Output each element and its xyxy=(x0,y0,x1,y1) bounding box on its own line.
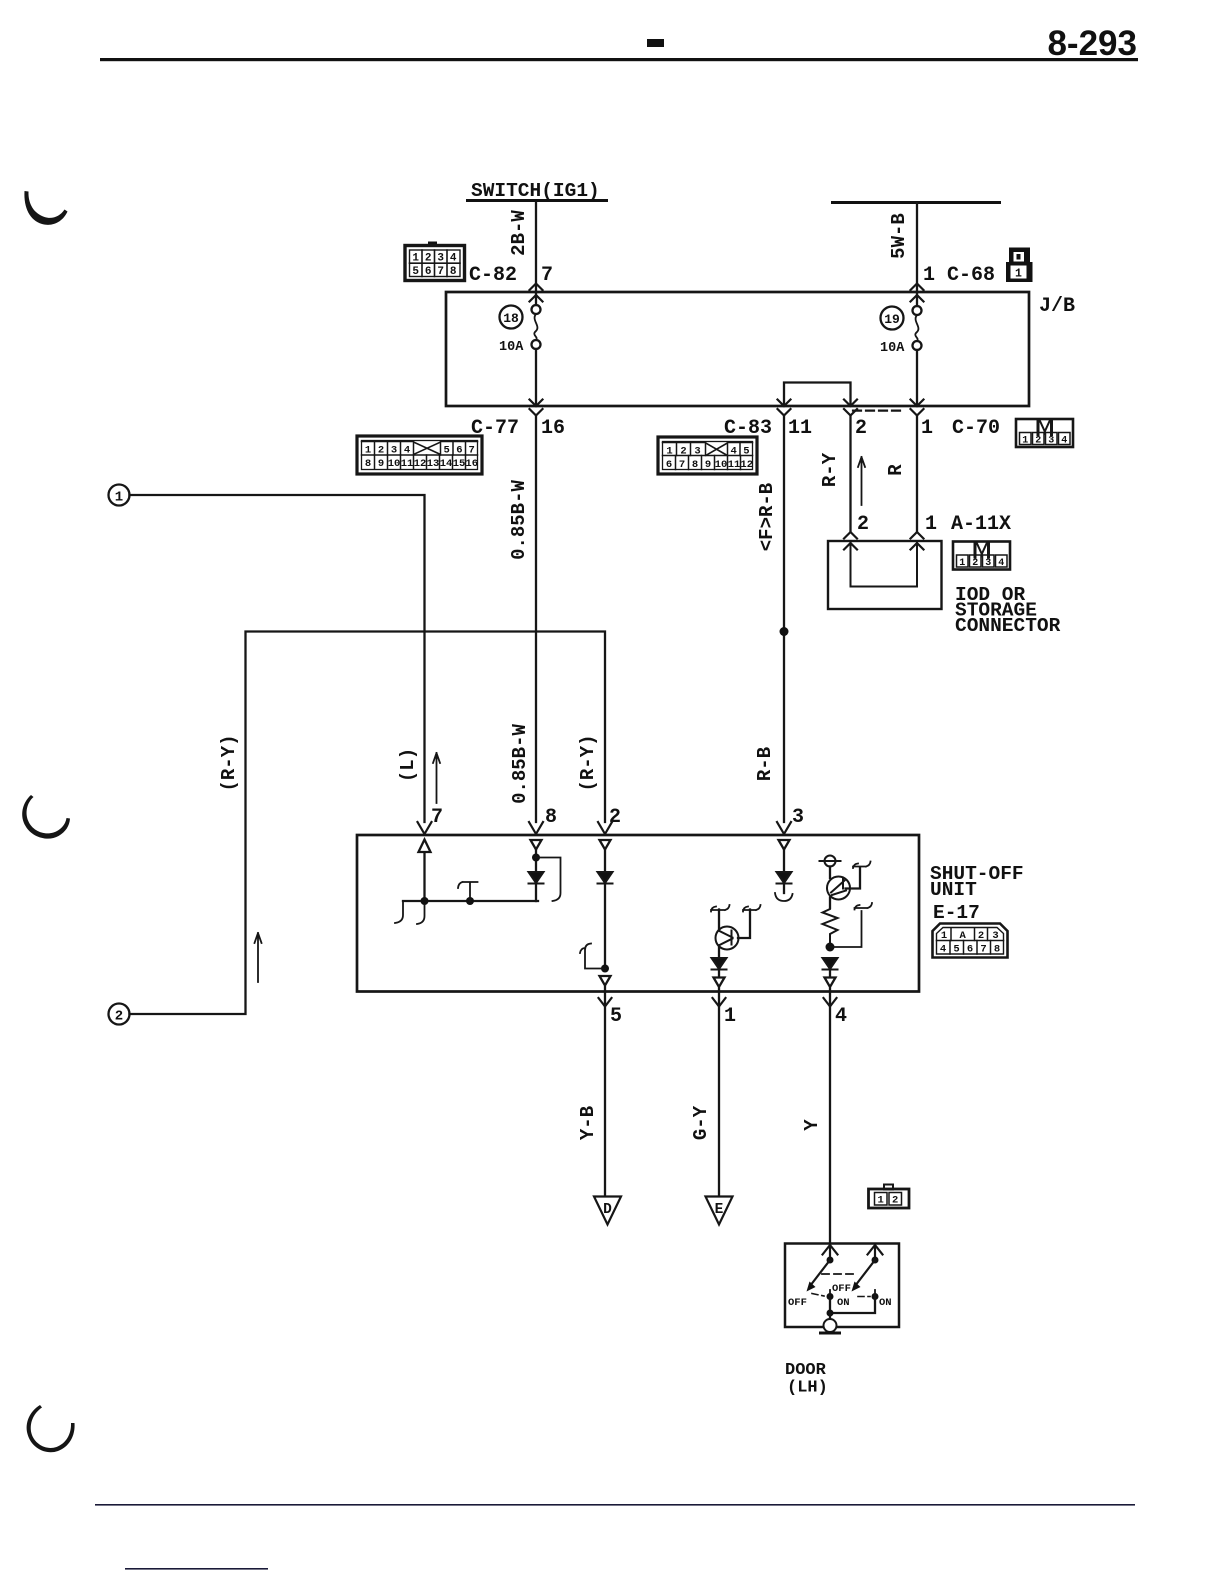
exit chevron pin5 xyxy=(599,998,612,1007)
transistor Q2 xyxy=(827,867,860,909)
wire 5W-B xyxy=(888,203,935,291)
dashed link C-70 xyxy=(853,410,904,412)
svg-text:6: 6 xyxy=(425,266,432,278)
exit chevron pin16 xyxy=(530,400,543,416)
svg-text:C-82: C-82 xyxy=(469,264,517,287)
wire from node 1 xyxy=(130,495,425,822)
svg-text:6: 6 xyxy=(456,444,462,456)
junction pin7 bus xyxy=(421,897,429,905)
svg-text:16: 16 xyxy=(541,417,565,440)
svg-text:2: 2 xyxy=(855,417,867,440)
svg-text:13: 13 xyxy=(427,458,440,470)
svg-text:5W-B: 5W-B xyxy=(888,213,910,259)
svg-text:4: 4 xyxy=(835,1005,847,1028)
svg-text:4: 4 xyxy=(731,445,737,457)
svg-text:(R-Y): (R-Y) xyxy=(577,734,599,791)
svg-text:(R-Y): (R-Y) xyxy=(218,734,240,791)
svg-text:7: 7 xyxy=(437,266,444,278)
current arrow (L) xyxy=(433,753,440,803)
connector C-70 icon xyxy=(1016,419,1073,447)
svg-text:14: 14 xyxy=(440,458,453,470)
svg-text:7: 7 xyxy=(541,264,553,287)
wire R-B xyxy=(754,415,804,829)
dashed OFF-ON right xyxy=(858,1296,870,1298)
svg-text:4: 4 xyxy=(998,558,1004,569)
svg-text:R-Y: R-Y xyxy=(819,452,841,487)
svg-text:C-68: C-68 xyxy=(947,264,995,287)
pin 1 exit triangle xyxy=(714,978,725,992)
svg-text:R: R xyxy=(885,464,907,476)
svg-text:5: 5 xyxy=(743,445,749,457)
svg-text:7: 7 xyxy=(469,444,475,456)
door arrow 2 stub xyxy=(868,1245,883,1261)
Q1 emitter wire xyxy=(718,946,720,958)
entry chevrons A-11X pin1 xyxy=(911,532,924,550)
svg-text:2: 2 xyxy=(972,558,978,569)
pin 8 entry triangle xyxy=(531,840,542,850)
stub hook below pin7 xyxy=(417,905,425,924)
junction door xyxy=(827,1310,834,1317)
battery node symbol xyxy=(820,856,841,867)
exit chevron pin4 xyxy=(824,998,837,1007)
svg-text:1: 1 xyxy=(115,490,123,506)
ON contact mid xyxy=(827,1290,850,1309)
power rail (right bus) xyxy=(831,201,1001,204)
power rail SWITCH(IG1) xyxy=(466,180,608,202)
svg-text:2: 2 xyxy=(680,445,686,457)
svg-text:8: 8 xyxy=(545,806,557,829)
wire Y-B xyxy=(577,992,605,1196)
svg-text:15: 15 xyxy=(453,458,466,470)
resistor R1 xyxy=(823,906,838,943)
door connector icon xyxy=(869,1185,910,1209)
fuse 18 xyxy=(499,292,541,406)
ground triangle E xyxy=(706,1197,733,1225)
junction on R-B wire xyxy=(780,627,789,636)
svg-text:3: 3 xyxy=(694,445,700,457)
wire Y xyxy=(801,992,830,1244)
svg-text:8: 8 xyxy=(692,459,698,471)
Q2 collector hook xyxy=(853,862,871,869)
junction block J/B xyxy=(446,292,1029,406)
svg-text:5: 5 xyxy=(953,944,959,956)
svg-text:A-11X: A-11X xyxy=(951,513,1011,536)
connector C-77 icon xyxy=(357,436,482,474)
connector C-68 xyxy=(1006,248,1033,283)
svg-text:7: 7 xyxy=(679,459,685,471)
svg-text:DOOR: DOOR xyxy=(785,1361,827,1380)
svg-text:4: 4 xyxy=(404,444,410,456)
wire 2B-W xyxy=(508,202,553,291)
svg-text:1: 1 xyxy=(923,264,935,287)
svg-text:7: 7 xyxy=(431,806,443,829)
svg-text:3: 3 xyxy=(437,253,444,265)
dashed OFF-ON left xyxy=(812,1294,824,1297)
wire R-Y to A-11X xyxy=(819,415,851,531)
switch lever 1 xyxy=(807,1257,834,1292)
entry chevron pin3 shut-off xyxy=(777,822,791,834)
entry chevron pin1 J/B xyxy=(911,284,924,302)
entry chevrons A-11X pin2 xyxy=(844,532,857,550)
internal bus wire xyxy=(403,900,538,902)
svg-text:3: 3 xyxy=(985,558,991,569)
svg-text:J/B: J/B xyxy=(1039,295,1075,318)
stub hook left xyxy=(395,901,403,923)
wire from node 2 xyxy=(130,632,606,1015)
svg-text:8: 8 xyxy=(450,266,457,278)
branch hook pin8 xyxy=(536,858,561,902)
svg-text:2: 2 xyxy=(425,253,432,265)
svg-text:5: 5 xyxy=(412,266,419,278)
svg-text:0.85B-W: 0.85B-W xyxy=(508,480,530,560)
ground bar xyxy=(819,1332,841,1335)
svg-text:1: 1 xyxy=(941,930,947,942)
svg-text:SWITCH(IG1): SWITCH(IG1) xyxy=(471,180,600,202)
diode D1 xyxy=(529,872,544,884)
current arrow (R-Y) xyxy=(255,933,262,982)
branch hook R1 xyxy=(830,903,872,947)
svg-text:(L): (L) xyxy=(397,748,419,782)
svg-text:1: 1 xyxy=(959,558,965,569)
svg-text:OFF: OFF xyxy=(788,1297,807,1309)
svg-text:12: 12 xyxy=(740,459,753,471)
exit chevron pin1 xyxy=(713,998,726,1007)
svg-text:Y: Y xyxy=(801,1119,823,1131)
svg-text:12: 12 xyxy=(414,458,427,470)
junction gate node xyxy=(466,897,474,905)
svg-text:1: 1 xyxy=(878,1195,884,1207)
junction Q2-R1 xyxy=(826,943,835,952)
svg-text:1: 1 xyxy=(412,253,419,265)
svg-text:9: 9 xyxy=(705,459,711,471)
svg-text:6: 6 xyxy=(967,944,973,956)
door switch ground terminal xyxy=(824,1313,837,1332)
svg-text:Y-B: Y-B xyxy=(577,1106,599,1140)
svg-text:1: 1 xyxy=(921,417,933,440)
node 2 xyxy=(109,1004,130,1025)
diode D3 xyxy=(777,872,792,884)
svg-text:C-70: C-70 xyxy=(952,417,1000,440)
connector C-82 xyxy=(405,242,465,281)
Q1 base hook xyxy=(711,905,730,912)
svg-text:8: 8 xyxy=(365,458,371,470)
branch gate stub pin5 xyxy=(580,944,605,969)
pin 5 exit triangle xyxy=(600,976,611,991)
svg-text:2B-W: 2B-W xyxy=(508,210,530,256)
svg-text:9: 9 xyxy=(378,458,384,470)
svg-text:8: 8 xyxy=(994,944,1000,956)
svg-text:11: 11 xyxy=(788,417,812,440)
svg-text:2: 2 xyxy=(1035,435,1041,446)
svg-text:11: 11 xyxy=(401,458,414,470)
svg-text:E-17: E-17 xyxy=(933,902,980,924)
svg-text:10A: 10A xyxy=(499,340,524,355)
svg-text:<F>R-B: <F>R-B xyxy=(756,483,778,551)
svg-text:1: 1 xyxy=(1015,268,1022,281)
current arrow R-Y xyxy=(858,457,865,505)
junction pin2-5 xyxy=(601,965,609,973)
shut-off unit box xyxy=(357,835,919,992)
exit chevron pin11 xyxy=(778,400,791,416)
pin 4 exit triangle xyxy=(825,978,836,992)
switch lever 2 xyxy=(852,1257,879,1292)
svg-text:2: 2 xyxy=(892,1195,898,1207)
svg-text:11: 11 xyxy=(728,459,741,471)
wire mid ON to junction xyxy=(829,1297,831,1314)
svg-text:3: 3 xyxy=(992,930,998,942)
svg-text:5: 5 xyxy=(610,1005,622,1028)
svg-text:OFF: OFF xyxy=(832,1283,851,1295)
wire 0.85B-W upper xyxy=(508,415,557,829)
Q1 collector hook xyxy=(743,905,761,912)
wire R to A-11X xyxy=(885,415,917,531)
exit chevron C-70 pin1 xyxy=(911,400,924,416)
svg-text:8-293: 8-293 xyxy=(1047,24,1137,63)
entry chevron pin2 shut-off xyxy=(598,822,612,834)
door arrow 1 xyxy=(823,1244,838,1260)
svg-text:1: 1 xyxy=(925,513,937,536)
svg-text:1: 1 xyxy=(1022,435,1028,446)
connector A-11X icon xyxy=(953,542,1010,570)
svg-text:1: 1 xyxy=(365,444,371,456)
svg-text:10: 10 xyxy=(388,458,401,470)
transistor Q1 xyxy=(716,910,751,950)
wire G-Y xyxy=(690,992,719,1196)
IOD storage connector box xyxy=(828,541,942,609)
svg-text:2: 2 xyxy=(978,930,984,942)
svg-text:A: A xyxy=(960,930,967,942)
pin 2 entry triangle xyxy=(600,840,611,850)
wire right ON to junction xyxy=(830,1297,875,1314)
entry chevron pin8 shut-off xyxy=(529,822,543,834)
svg-text:4: 4 xyxy=(1061,435,1067,446)
junction pin8 xyxy=(532,854,540,862)
svg-text:0.85B-W: 0.85B-W xyxy=(509,724,531,804)
svg-text:5: 5 xyxy=(444,444,450,456)
svg-text:3: 3 xyxy=(391,444,397,456)
svg-text:R-B: R-B xyxy=(754,747,776,781)
footer rule xyxy=(95,1504,1135,1506)
diode D4 xyxy=(712,958,727,970)
entry chevron pin7 shut-off xyxy=(418,822,432,834)
pin 7 internal arrow xyxy=(419,840,431,902)
diode D2 xyxy=(598,872,613,884)
svg-text:16: 16 xyxy=(465,458,478,470)
ground triangle D xyxy=(594,1197,621,1225)
svg-text:2: 2 xyxy=(115,1009,123,1025)
J/B inner tap box xyxy=(784,383,851,407)
pin3 end hook xyxy=(775,893,793,901)
svg-text:1: 1 xyxy=(724,1005,736,1028)
svg-text:7: 7 xyxy=(980,944,986,956)
pin 3 entry triangle xyxy=(779,840,790,850)
svg-text:2: 2 xyxy=(857,513,869,536)
svg-text:19: 19 xyxy=(884,312,900,327)
svg-text:G-Y: G-Y xyxy=(690,1105,712,1140)
door switch box xyxy=(785,1244,899,1328)
svg-text:6: 6 xyxy=(666,459,672,471)
header rule xyxy=(100,58,1138,61)
header dash xyxy=(647,39,664,47)
svg-text:4: 4 xyxy=(450,253,457,265)
svg-text:ON: ON xyxy=(837,1297,850,1309)
svg-text:10A: 10A xyxy=(880,341,905,356)
gate stub xyxy=(458,882,478,901)
fuse 19 xyxy=(880,292,922,406)
svg-text:3: 3 xyxy=(1048,435,1054,446)
svg-text:1: 1 xyxy=(666,445,672,457)
svg-text:3: 3 xyxy=(792,806,804,829)
footer short rule xyxy=(125,1568,268,1570)
node 1 xyxy=(109,485,130,506)
svg-text:(LH): (LH) xyxy=(787,1379,828,1398)
svg-text:10: 10 xyxy=(715,459,728,471)
svg-text:D: D xyxy=(603,1202,612,1218)
entry chevron pin7 J/B xyxy=(530,284,543,302)
ON contact right xyxy=(872,1290,892,1309)
diode D5 xyxy=(823,958,838,970)
svg-text:2: 2 xyxy=(378,444,384,456)
svg-text:ON: ON xyxy=(879,1297,892,1309)
connector E-17 icon xyxy=(933,924,1008,958)
svg-text:18: 18 xyxy=(503,311,519,326)
dashed coupler xyxy=(822,1273,856,1275)
svg-text:E: E xyxy=(715,1202,724,1218)
exit chevron C-70 pin2 xyxy=(844,400,857,416)
connector C-83 icon xyxy=(658,437,757,474)
svg-text:4: 4 xyxy=(940,944,946,956)
